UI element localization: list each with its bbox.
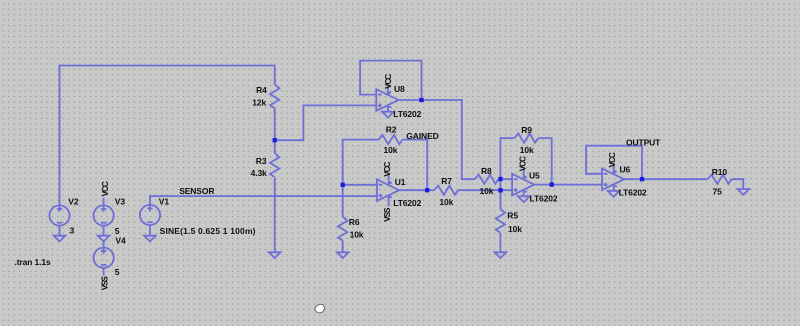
wire R10 right to ground: [732, 179, 744, 189]
svg-text:.tran 1.1s: .tran 1.1s: [15, 257, 52, 267]
svg-text:10k: 10k: [480, 186, 494, 196]
svg-text:SINE(1.5 0.625 1 100m): SINE(1.5 0.625 1 100m): [160, 226, 256, 236]
wire V1 top to SENSOR line to U1 noninverting input: [150, 196, 377, 205]
wire node D to R9 feedback left: [500, 138, 514, 209]
junction U1 output: [425, 188, 429, 192]
wire U5 output to U6 noninverting input: [534, 184, 602, 186]
wire U8 output to feedback junction: [398, 99, 421, 101]
voltage source V1: [140, 196, 256, 235]
svg-text:10k: 10k: [350, 230, 364, 240]
ground below V1: [144, 236, 156, 242]
junction U8 output: [419, 98, 423, 102]
ground below R3: [269, 252, 281, 258]
resistor R3: [251, 153, 280, 178]
resistor R7: [434, 176, 458, 207]
wire node B to R6 top: [342, 185, 344, 217]
svg-text:LT6202: LT6202: [393, 109, 421, 119]
svg-text:V4: V4: [115, 235, 126, 245]
op-amp U1: [377, 174, 422, 208]
wire node A to U8 noninverting input: [275, 105, 377, 140]
svg-text:R3: R3: [256, 156, 267, 166]
svg-text:5: 5: [115, 267, 120, 277]
voltage source V4: [94, 235, 126, 276]
junction U5 output: [550, 182, 554, 186]
wire R3 bottom to ground: [274, 178, 276, 252]
wire R2 right down to U1 output junction: [402, 140, 427, 191]
wire R7 right to U5 noninverting input: [458, 189, 512, 191]
svg-text:75: 75: [713, 186, 723, 196]
op-amp U5: [512, 169, 558, 204]
svg-text:OUTPUT: OUTPUT: [626, 137, 661, 147]
wire node B to U1 inverting input: [343, 184, 377, 186]
wire R9 right down to U5 output junction: [538, 138, 552, 185]
ground between V3 and V4: [98, 236, 110, 242]
resistor R9: [514, 125, 538, 155]
svg-text:R8: R8: [481, 166, 492, 176]
svg-text:U8: U8: [394, 84, 405, 94]
wire U6 output to feedback junction: [624, 178, 642, 180]
wire node B up and right to R2 left: [343, 140, 379, 185]
junction node D R8-R9: [498, 177, 502, 181]
ground below R6: [337, 252, 349, 258]
svg-text:V2: V2: [68, 197, 79, 207]
wire R6 bottom to ground: [342, 241, 344, 253]
wire U1 output to R7 left: [399, 189, 434, 191]
wire R4 bottom to node A junction: [274, 108, 276, 153]
svg-text:VSS: VSS: [383, 207, 392, 222]
svg-text:R9: R9: [521, 125, 532, 135]
svg-text:VCC: VCC: [101, 181, 110, 196]
svg-text:4.3k: 4.3k: [251, 168, 267, 178]
svg-text:R10: R10: [712, 167, 728, 177]
svg-text:R7: R7: [441, 176, 452, 186]
junction node C R7-R5: [498, 188, 502, 192]
ground below V2: [54, 236, 66, 242]
svg-text:R5: R5: [507, 211, 518, 221]
svg-text:GAINED: GAINED: [406, 131, 438, 141]
svg-text:VCC: VCC: [383, 161, 392, 176]
voltage source V3: [94, 197, 126, 236]
svg-text:10k: 10k: [384, 145, 398, 155]
resistor R6: [338, 217, 364, 241]
wire node C to R5 top: [499, 190, 501, 209]
op-amp U8: [376, 84, 421, 119]
svg-text:U1: U1: [395, 177, 406, 187]
wire R5 bottom to ground: [499, 233, 501, 253]
junction node A R4-R3: [273, 138, 277, 142]
svg-text:U5: U5: [529, 170, 540, 180]
resistor R4: [252, 84, 279, 108]
svg-text:10k: 10k: [439, 197, 453, 207]
wire U6 feedback loop to inverting input: [586, 146, 642, 180]
resistor R10: [708, 167, 732, 196]
wire V2 top to R4 top: [60, 66, 275, 206]
resistor R2: [378, 124, 402, 155]
svg-text:VCC: VCC: [608, 152, 617, 167]
svg-text:10k: 10k: [520, 145, 534, 155]
svg-text:V1: V1: [159, 196, 170, 206]
resistor R8: [475, 166, 499, 196]
voltage source V2: [49, 197, 78, 236]
junction U6 output: [640, 177, 644, 181]
svg-text:R4: R4: [256, 85, 267, 95]
ground below R5: [495, 252, 507, 258]
svg-text:LT6202: LT6202: [393, 198, 421, 208]
svg-text:LT6202: LT6202: [530, 193, 558, 203]
svg-text:3: 3: [70, 225, 75, 235]
op-amp U6: [602, 163, 647, 197]
svg-text:V3: V3: [115, 197, 126, 207]
junction node B U1 inverting: [341, 183, 345, 187]
svg-text:VCC: VCC: [518, 156, 527, 171]
ground right of R10: [738, 189, 750, 195]
svg-text:VCC: VCC: [384, 74, 393, 89]
svg-text:VSS: VSS: [101, 276, 110, 291]
svg-text:LT6202: LT6202: [619, 187, 647, 197]
svg-text:SENSOR: SENSOR: [179, 186, 214, 196]
wire R8 right to U5 inverting input: [499, 178, 513, 180]
svg-text:R2: R2: [386, 124, 397, 134]
svg-text:U6: U6: [620, 164, 631, 174]
resistor R5: [496, 209, 522, 234]
svg-text:10k: 10k: [508, 224, 522, 234]
wire U8 output junction to R8 left: [422, 100, 475, 179]
wire U8 feedback loop to inverting input: [360, 61, 421, 100]
svg-text:12k: 12k: [252, 98, 266, 108]
mouse cursor: [315, 304, 324, 313]
wire U6 output junction to R10 left: [642, 178, 708, 180]
svg-text:R6: R6: [349, 217, 360, 227]
